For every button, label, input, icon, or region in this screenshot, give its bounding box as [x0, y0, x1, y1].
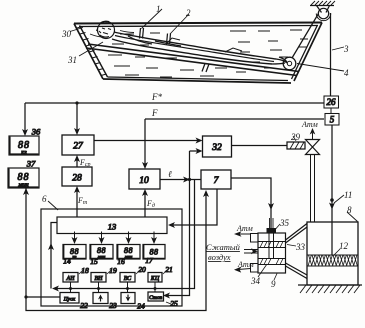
svg-text:F*: F*	[151, 92, 162, 102]
svg-text:7: 7	[214, 176, 220, 186]
label 31	[79, 42, 103, 56]
Atm arrow top	[234, 231, 251, 237]
svg-text:27: 27	[73, 142, 84, 152]
wire F (from box 5 to box 10 / box 32)	[142, 119, 324, 169]
svg-text:22: 22	[80, 301, 88, 310]
label 30	[70, 28, 83, 32]
svg-text:Сжатый: Сжатый	[206, 242, 241, 252]
svg-text:Атм: Атм	[301, 120, 318, 129]
wire e (10 to 7)	[160, 177, 201, 183]
svg-text:33: 33	[295, 242, 306, 252]
svg-text:10: 10	[139, 176, 149, 186]
float 4 (roller at rope end)	[283, 57, 296, 70]
svg-text:20: 20	[138, 265, 146, 274]
wire 7 bottom to box 13	[168, 189, 217, 228]
ground hatching	[298, 285, 362, 293]
svg-text:АН: АН	[66, 276, 76, 282]
svg-text:Fд: Fд	[146, 199, 155, 209]
svg-text:35: 35	[279, 218, 290, 228]
wire into 32 lower input	[190, 148, 203, 154]
svg-text:36: 36	[31, 127, 41, 137]
svg-text:21: 21	[165, 265, 173, 274]
label 3 leader	[332, 47, 344, 50]
svg-text:13: 13	[108, 222, 117, 232]
box 13	[57, 217, 167, 234]
svg-text:Стоп: Стоп	[149, 295, 162, 301]
svg-text:34: 34	[250, 276, 261, 286]
text labels (SVG text)	[42, 4, 352, 289]
svg-text:1: 1	[156, 4, 161, 14]
ejector hatched band top 33	[258, 242, 286, 248]
display 14	[63, 232, 86, 266]
compressed air inlet pipe	[244, 248, 258, 254]
svg-text:кг: кг	[21, 149, 27, 156]
svg-text:мин: мин	[97, 254, 106, 259]
label 34 leader	[258, 264, 267, 277]
button KC 21	[148, 265, 173, 282]
wire Fd (into 10 from block 6)	[142, 189, 148, 217]
svg-text:17: 17	[145, 256, 153, 265]
pulley (ceiling mount)	[310, 1, 335, 21]
box 28	[62, 167, 92, 186]
svg-text:мин: мин	[17, 181, 28, 188]
label 8 leader	[347, 212, 358, 222]
button Pusk 22	[60, 293, 88, 311]
svg-text:12: 12	[339, 241, 349, 251]
svg-text:Атм: Атм	[237, 260, 254, 269]
button Stop 25	[148, 292, 178, 308]
svg-text:Атм: Атм	[236, 224, 253, 233]
display 17	[143, 232, 165, 266]
wire Fm (into 28 from block 6)	[74, 186, 80, 217]
button VS 20	[120, 265, 146, 282]
label 2 leader	[170, 14, 189, 34]
display 15	[90, 232, 113, 267]
ejector 9 body	[251, 233, 286, 273]
svg-text:23: 23	[109, 301, 117, 310]
svg-text:29: 29	[291, 132, 301, 142]
svg-text:Fт: Fт	[77, 196, 88, 206]
button AN 18	[63, 266, 89, 282]
wire 7 to ejector nozzle	[231, 178, 274, 228]
label 6 leader	[48, 201, 58, 210]
heater 29 (hatched box)	[232, 136, 305, 149]
bathtub 30	[74, 23, 322, 84]
box 32	[203, 136, 232, 157]
button down 24	[121, 293, 145, 311]
wire F* (top distribution line)	[22, 101, 324, 136]
pipe valve to tank	[311, 155, 315, 223]
svg-text:ℓ: ℓ	[168, 169, 172, 179]
rod 11 (box 5 down to tank)	[329, 125, 335, 255]
wire bottom bus (37 - bottom - 7)	[23, 188, 209, 311]
svg-text:15: 15	[90, 257, 98, 266]
box 10	[129, 169, 160, 189]
box 26	[324, 96, 339, 108]
svg-text:6: 6	[42, 194, 47, 204]
water surface dashes	[108, 30, 308, 77]
svg-text:30: 30	[61, 29, 72, 39]
connectors to buttons row	[69, 282, 157, 293]
svg-text:КЦ: КЦ	[150, 276, 160, 282]
label 9 leader	[274, 274, 277, 281]
svg-text:11: 11	[344, 190, 352, 200]
wire feedback (down to keyboard block)	[52, 180, 195, 292]
svg-text:24: 24	[137, 302, 145, 311]
svg-text:5: 5	[330, 115, 335, 125]
svg-text:14: 14	[63, 257, 71, 266]
svg-text:9: 9	[271, 279, 276, 289]
ejector hatched band bottom 34	[258, 259, 286, 265]
svg-text:Fср: Fср	[79, 158, 91, 168]
display 36	[9, 127, 41, 156]
wire into box13 left	[48, 223, 57, 289]
svg-text:18: 18	[81, 266, 89, 275]
wire Fcp (28 to 27)	[74, 155, 80, 167]
svg-text:ВС: ВС	[124, 276, 132, 282]
box 5	[325, 108, 339, 125]
svg-text:28: 28	[72, 174, 82, 184]
svg-text:19: 19	[109, 266, 117, 275]
svg-text:кг: кг	[73, 254, 77, 259]
svg-text:F: F	[151, 108, 158, 118]
svg-text:ВН: ВН	[95, 276, 104, 282]
label 4 leader	[297, 64, 344, 72]
rope 3	[292, 14, 319, 59]
diffuser cone to tank	[286, 224, 308, 279]
svg-text:4: 4	[344, 68, 349, 78]
svg-text:2: 2	[186, 8, 191, 18]
svg-text:32: 32	[211, 143, 222, 153]
Atm arrow bottom	[234, 267, 251, 273]
label 12 leader	[333, 249, 340, 256]
svg-text:Пуск: Пуск	[63, 297, 76, 303]
tank 8	[307, 222, 358, 285]
label 33 leader	[287, 245, 296, 247]
box 7	[201, 170, 231, 189]
label 35 leader	[273, 224, 280, 232]
button up 23	[93, 293, 117, 311]
svg-text:31: 31	[67, 55, 77, 65]
button VN 19	[91, 266, 117, 282]
tank float band 12	[307, 255, 358, 266]
svg-text:воздух: воздух	[208, 252, 231, 262]
display 16	[117, 232, 140, 267]
label 1 leader	[142, 9, 163, 29]
block 6 outer rectangle	[41, 209, 182, 306]
label 11 leader	[334, 195, 344, 203]
svg-text:16: 16	[117, 257, 125, 266]
svg-text:мин: мин	[124, 254, 133, 259]
person 1 lying in tub	[90, 21, 287, 64]
svg-text:26: 26	[327, 97, 337, 107]
svg-text:25: 25	[170, 299, 178, 308]
svg-text:8: 8	[347, 205, 352, 215]
wire e-branch up to 32 / down to Stop	[163, 151, 190, 299]
board 2 (inclined platform)	[86, 44, 299, 76]
box 27	[62, 135, 94, 155]
display 37	[8, 159, 39, 189]
wire 27 to 32	[94, 138, 203, 144]
svg-text:37: 37	[26, 159, 36, 169]
svg-text:3: 3	[343, 44, 349, 54]
nozzle 35	[267, 218, 277, 259]
valve (to Atm)	[306, 128, 320, 155]
